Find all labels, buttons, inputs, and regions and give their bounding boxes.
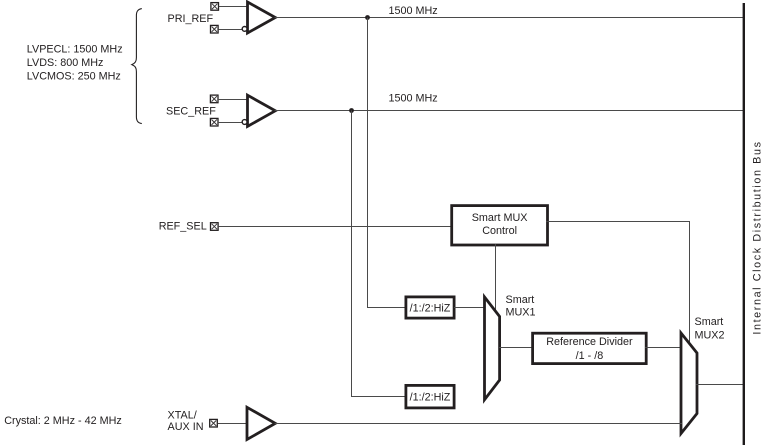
wire Reference Divider to Smart MUX2	[645, 347, 682, 349]
wire SEC_REF buffer output to bus	[275, 110, 745, 112]
svg-text:Reference Divider: Reference Divider	[546, 336, 633, 348]
wire SEC_REF+ pin to buffer	[219, 99, 248, 101]
input buffer U1 (PRI_REF)	[248, 2, 276, 33]
wire /1:/2:HiZ to Smart MUX1	[454, 307, 485, 309]
label XTAL/AUX IN	[168, 409, 204, 433]
svg-text:REF_SEL: REF_SEL	[159, 220, 207, 232]
wire XTAL buffer output to Smart MUX2	[275, 423, 683, 425]
block Smart MUX Control	[452, 206, 548, 245]
svg-text:LVCMOS: 250 MHz: LVCMOS: 250 MHz	[27, 70, 121, 82]
wire junction down to /1:/2:HiZ divider 1	[368, 18, 405, 308]
pin SEC_REF+	[210, 95, 218, 103]
brace for input levels	[132, 9, 142, 124]
wire Smart MUX Control to Smart MUX1 select	[495, 244, 497, 311]
node junction on PRI wire	[365, 15, 370, 20]
svg-text:LVPECL: 1500 MHz: LVPECL: 1500 MHz	[27, 44, 123, 56]
wire PRI_REF- pin to bubble	[218, 29, 242, 31]
bus Internal Clock Distribution Bus	[743, 3, 745, 445]
wire Smart MUX Control to Smart MUX2 select	[547, 222, 690, 344]
block divider /1:/2:HiZ (primary)	[406, 297, 454, 318]
inverting bubble U1	[242, 27, 247, 32]
wire Smart MUX1 to Reference Divider	[499, 347, 534, 349]
mux Smart MUX2	[681, 333, 697, 434]
pin REF_SEL	[211, 223, 219, 231]
wire junction down to /1:/2:HiZ divider 2	[352, 111, 405, 397]
label LVPECL/LVDS/LVCMOS input frequency limits	[27, 44, 123, 83]
svg-text:Smart: Smart	[506, 294, 535, 306]
wire REF_SEL to Smart MUX Control	[219, 226, 451, 228]
svg-text:/1:/2:HiZ: /1:/2:HiZ	[410, 391, 451, 403]
block Reference Divider /1 - /8	[533, 333, 647, 363]
inverting bubble U2	[242, 120, 247, 125]
svg-text:XTAL/: XTAL/	[168, 409, 197, 421]
wire PRI_REF buffer output to bus	[275, 17, 745, 19]
pin PRI_REF+	[211, 3, 219, 11]
label Smart MUX1	[506, 294, 536, 319]
svg-text:MUX2: MUX2	[695, 329, 725, 341]
svg-text:Smart: Smart	[695, 316, 724, 328]
pin PRI_REF-	[211, 25, 219, 33]
svg-text:/1 - /8: /1 - /8	[576, 350, 604, 362]
input buffer U2 (SEC_REF)	[248, 95, 276, 126]
wire PRI_REF+ pin to buffer	[219, 6, 248, 8]
svg-text:1500 MHz: 1500 MHz	[389, 93, 438, 105]
pin SEC_REF-	[210, 118, 218, 126]
wire Smart MUX2 output to bus	[696, 384, 744, 386]
mux Smart MUX1	[485, 297, 500, 400]
svg-text:MUX1: MUX1	[506, 306, 536, 318]
svg-text:LVDS: 800 MHz: LVDS: 800 MHz	[27, 57, 104, 69]
svg-text:PRI_REF: PRI_REF	[168, 13, 214, 25]
block divider /1:/2:HiZ (secondary)	[406, 385, 454, 408]
svg-text:Control: Control	[482, 225, 517, 237]
label Smart MUX2	[695, 316, 725, 341]
wire SEC_REF- pin to bubble	[219, 122, 243, 124]
svg-text:Internal Clock Distribution Bu: Internal Clock Distribution Bus	[751, 140, 761, 334]
svg-text:Smart MUX: Smart MUX	[472, 212, 528, 224]
svg-text:1500 MHz: 1500 MHz	[389, 5, 438, 17]
pin XTAL/AUX IN	[210, 419, 218, 427]
svg-text:Crystal: 2 MHz - 42 MHz: Crystal: 2 MHz - 42 MHz	[4, 415, 122, 427]
wire XTAL pin to buffer	[218, 423, 248, 425]
svg-text:/1:/2:HiZ: /1:/2:HiZ	[410, 302, 451, 314]
svg-text:SEC_REF: SEC_REF	[166, 105, 216, 117]
input buffer U3 (XTAL/AUX IN)	[247, 407, 275, 439]
svg-text:AUX IN: AUX IN	[168, 421, 204, 433]
node junction on SEC wire	[349, 108, 354, 113]
